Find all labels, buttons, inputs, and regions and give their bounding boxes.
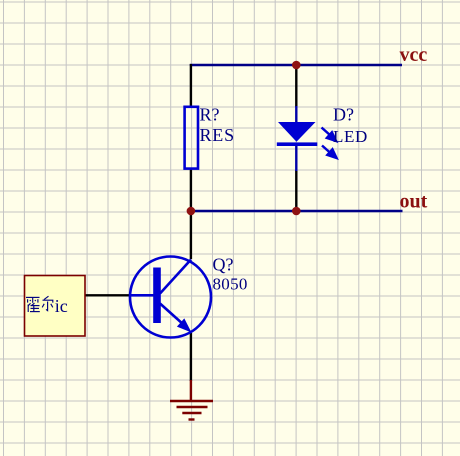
svg-text:Q?: Q? <box>213 255 234 275</box>
svg-text:out: out <box>400 191 428 213</box>
svg-text:R?: R? <box>200 105 220 125</box>
svg-text:D?: D? <box>333 105 354 125</box>
svg-text:vcc: vcc <box>400 44 428 66</box>
svg-text:LED: LED <box>333 127 368 146</box>
svg-text:RES: RES <box>200 125 235 145</box>
svg-text:ic: ic <box>55 296 68 316</box>
svg-text:8050: 8050 <box>213 275 248 294</box>
